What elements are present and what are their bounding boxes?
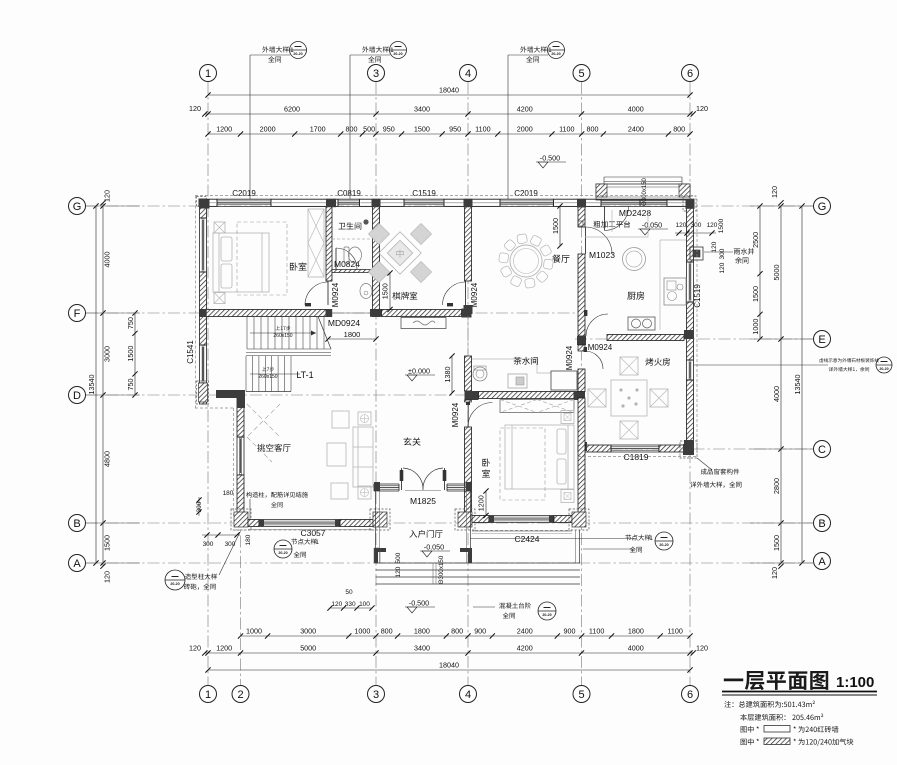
svg-text:C2424: C2424 — [514, 534, 539, 544]
svg-text:1000: 1000 — [751, 319, 760, 335]
top dimension total 18040 — [208, 94, 690, 96]
axis vertical line 2 — [240, 392, 242, 686]
axis bubble 1 top — [200, 65, 217, 82]
svg-text:180: 180 — [223, 490, 234, 497]
top dimension chain detailed — [208, 133, 690, 135]
callout concrete steps — [499, 603, 531, 609]
svg-text:120: 120 — [395, 566, 402, 577]
door-window MD2428 kitchen north — [601, 198, 640, 200]
svg-text:900: 900 — [564, 627, 576, 636]
wardrobe bedroom1 — [308, 209, 324, 277]
svg-text:1800: 1800 — [344, 330, 361, 339]
window C3057 — [259, 519, 340, 521]
svg-text:300: 300 — [691, 222, 702, 229]
wall axis4 mahjong east — [465, 206, 472, 281]
room label bedroom2 vertical — [482, 459, 490, 467]
axis horizontal line D — [86, 394, 585, 396]
wall living south axis B — [248, 520, 259, 527]
callout exterior wall detail 1 (mid) — [349, 55, 351, 199]
title first floor plan — [724, 671, 828, 690]
axis bubble B left — [69, 515, 86, 532]
svg-text:B: B — [73, 518, 80, 530]
svg-text:4: 4 — [465, 68, 471, 80]
wall left exterior along axis 1 — [200, 200, 207, 219]
svg-text:1: 1 — [649, 535, 653, 542]
callout shaped column left — [165, 570, 185, 590]
door M0924 tea to fire room — [578, 369, 585, 392]
svg-text:120: 120 — [770, 567, 779, 579]
wall entry north west segment — [374, 483, 399, 485]
wall entry north east segment — [447, 483, 472, 485]
stair arrow lower — [250, 373, 300, 375]
porch steps top — [604, 176, 682, 178]
svg-text:300: 300 — [196, 501, 203, 512]
svg-text:800: 800 — [587, 125, 599, 134]
opening MD0924 threshold — [332, 312, 370, 314]
column entry west — [374, 482, 380, 491]
svg-text:900: 900 — [474, 627, 486, 636]
wall living west axis2 — [237, 398, 244, 437]
tea room counter — [472, 359, 551, 373]
room label tea room — [514, 357, 538, 365]
corner pilaster B5 — [569, 509, 589, 530]
svg-text:18040: 18040 — [439, 661, 459, 670]
callout exterior wall detail 1 (right) — [507, 55, 509, 199]
floor drain — [363, 219, 368, 224]
svg-text:6200: 6200 — [284, 105, 300, 114]
svg-text:120: 120 — [707, 222, 718, 229]
svg-text:6: 6 — [687, 689, 693, 701]
nightstands bedroom1 — [214, 222, 225, 233]
svg-text:120: 120 — [711, 241, 718, 252]
column F4 — [462, 309, 472, 318]
svg-text:120: 120 — [103, 571, 112, 583]
right dimension total 13540 — [801, 206, 803, 563]
svg-text:3: 3 — [373, 68, 379, 80]
svg-text:M0924: M0924 — [565, 345, 574, 370]
window fire room east — [686, 360, 688, 380]
svg-text:120: 120 — [770, 186, 779, 198]
svg-text:20-20: 20-20 — [879, 367, 888, 371]
mahjong table — [379, 232, 421, 274]
axis horizontal line E — [575, 338, 813, 340]
leader lines to right node callout — [470, 538, 634, 540]
svg-text:1: 1 — [205, 68, 211, 80]
axis horizontal line B — [86, 522, 813, 524]
svg-text:1500: 1500 — [718, 218, 725, 233]
top dimension chain major — [208, 113, 690, 115]
door M0824 — [335, 248, 337, 269]
svg-text:750: 750 — [126, 317, 135, 329]
svg-text:M0824: M0824 — [334, 259, 360, 269]
window C2019 top-left — [217, 198, 271, 200]
svg-text:120: 120 — [696, 644, 708, 653]
bottom dimension chain major — [208, 652, 690, 654]
axis horizontal line G — [86, 205, 813, 207]
svg-text:1500: 1500 — [551, 218, 560, 234]
sofa set living room — [327, 411, 373, 499]
svg-text:C: C — [818, 444, 826, 456]
rain well — [690, 247, 703, 260]
dashed rect bedroom2 — [500, 428, 545, 500]
wall along axis F bedroom bottom — [200, 310, 327, 317]
axis vertical line 4 — [467, 82, 469, 686]
window C1819 — [611, 444, 659, 446]
dining round table — [510, 245, 542, 277]
callout node detail right — [625, 535, 650, 541]
svg-text:100: 100 — [359, 601, 370, 608]
axis vertical line 5 — [581, 82, 583, 686]
svg-text:1000: 1000 — [354, 627, 370, 636]
callout stone trim right — [694, 364, 828, 366]
svg-text:D: D — [73, 390, 81, 402]
svg-text:M0924: M0924 — [331, 282, 340, 307]
svg-text:120: 120 — [103, 190, 112, 202]
svg-text:2400: 2400 — [628, 125, 644, 134]
callout window surround right — [697, 458, 712, 470]
svg-text:4200: 4200 — [517, 644, 533, 653]
room label mahjong — [392, 292, 417, 300]
wall bedroom2 east axis5 — [578, 398, 585, 515]
svg-text:3000: 3000 — [103, 346, 112, 362]
svg-text:2: 2 — [237, 689, 243, 701]
axis bubble E right — [814, 331, 831, 348]
stair arrow upper — [250, 332, 316, 334]
wall axis3 bath east — [373, 206, 380, 309]
svg-text:13540: 13540 — [87, 375, 96, 395]
svg-text:2800: 2800 — [772, 478, 781, 494]
dim 1500 dining — [559, 206, 561, 246]
svg-text:1200: 1200 — [216, 125, 232, 134]
porch corner step brackets — [374, 548, 386, 563]
fire room stools — [620, 357, 638, 375]
wall along axis D tea room bottom — [465, 391, 479, 400]
svg-text:180: 180 — [245, 534, 252, 545]
tea water heater — [473, 367, 487, 381]
fire room table — [611, 380, 647, 416]
column D5 — [574, 391, 585, 400]
stair break line — [318, 317, 331, 350]
wall top exterior along axis G — [200, 199, 218, 206]
svg-text:A: A — [73, 558, 81, 570]
svg-text:20-20: 20-20 — [551, 52, 560, 56]
axis bubble B right — [814, 515, 831, 532]
svg-text:800: 800 — [381, 627, 393, 636]
svg-text:C0819: C0819 — [337, 189, 361, 198]
axis bubble G right — [814, 198, 831, 215]
notes — [724, 701, 815, 708]
room label bathroom — [338, 222, 361, 229]
bottom dimension chain detailed — [241, 635, 691, 637]
wall kitchen south axis E — [577, 336, 586, 345]
dashed ceiling rect bedroom1 — [237, 222, 287, 295]
corner pilaster C6 — [680, 441, 697, 458]
svg-text:1700: 1700 — [310, 125, 326, 134]
svg-text:Θ300x150: Θ300x150 — [438, 555, 445, 584]
door M0924 bedroom2 — [469, 402, 471, 427]
axis vertical line 3 — [375, 82, 377, 686]
svg-text:M0924: M0924 — [451, 402, 460, 427]
svg-text:1100: 1100 — [475, 125, 490, 134]
axis bubble 4 bottom — [460, 686, 477, 703]
axis bubble 5 top — [573, 65, 590, 82]
wall mahjong bottom along F — [382, 310, 462, 317]
svg-text:2000: 2000 — [517, 125, 533, 134]
kitchen stove — [628, 317, 655, 330]
svg-text:1: 1 — [205, 689, 211, 701]
svg-text:1500: 1500 — [772, 535, 781, 551]
double height dashed lines living — [247, 404, 280, 462]
stair lower flight treads — [246, 356, 291, 392]
axis bubble F left — [69, 305, 86, 322]
left dimension detail 750/1500/750 — [134, 313, 136, 395]
svg-text:18040: 18040 — [439, 86, 459, 95]
door M0924 bedroom1 — [328, 281, 330, 305]
svg-text:-0.050: -0.050 — [642, 221, 662, 230]
svg-text:1500: 1500 — [381, 283, 390, 299]
svg-text:M1023: M1023 — [589, 250, 615, 260]
svg-text:1380: 1380 — [443, 367, 452, 383]
svg-text:1:100: 1:100 — [836, 674, 874, 691]
svg-text:300: 300 — [225, 541, 236, 548]
corner pilaster B4 — [455, 509, 475, 530]
window bedroom west — [199, 218, 201, 272]
axis bubble 3 top — [368, 65, 385, 82]
svg-text:4000: 4000 — [628, 644, 644, 653]
stone trim dashed outline exterior — [195, 195, 694, 197]
svg-text:500: 500 — [395, 552, 402, 563]
tea cabinet — [551, 371, 577, 390]
svg-text:2500: 2500 — [751, 232, 760, 248]
svg-text:C2019: C2019 — [514, 189, 538, 198]
svg-text:750: 750 — [126, 378, 135, 390]
kitchen sink round — [623, 248, 646, 271]
corner pilaster G6 dashes — [683, 196, 696, 211]
svg-text:260x150: 260x150 — [273, 333, 292, 339]
wall bedroom1 east — [326, 206, 332, 281]
dim 1380 — [451, 356, 453, 393]
svg-text:20-20: 20-20 — [278, 551, 287, 555]
svg-text:LT-1: LT-1 — [296, 370, 313, 380]
wall tea room west — [465, 356, 472, 391]
bed bedroom2 — [505, 425, 574, 489]
svg-text:M1825: M1825 — [410, 496, 436, 506]
corner pilaster B3 porch — [370, 509, 390, 530]
svg-text:MD0924: MD0924 — [328, 318, 360, 328]
bathroom toilet — [344, 247, 362, 263]
svg-text:950: 950 — [383, 125, 395, 134]
svg-text:3: 3 — [373, 689, 379, 701]
room label dining — [552, 254, 569, 262]
svg-text:330: 330 — [345, 601, 356, 608]
platform L column bottom-left of entry — [374, 548, 380, 563]
svg-text:MD2428: MD2428 — [619, 208, 651, 218]
wall kitchen west axis5 — [578, 206, 585, 227]
nightstands bedroom2 — [561, 411, 574, 424]
svg-text:1500: 1500 — [414, 125, 430, 134]
svg-text:1100: 1100 — [667, 627, 682, 636]
window C1519 top — [404, 198, 444, 200]
window C0819 — [338, 198, 360, 200]
svg-text:5: 5 — [578, 689, 584, 701]
svg-text:C1541: C1541 — [186, 340, 195, 364]
svg-text:1100: 1100 — [589, 627, 604, 636]
callout exterior wall detail 1 (left) — [249, 55, 251, 199]
axis bubble 6 top — [682, 65, 699, 82]
svg-text:120: 120 — [189, 644, 201, 653]
svg-text:±0.000: ±0.000 — [408, 367, 430, 376]
svg-text:Θ300x150: Θ300x150 — [642, 178, 648, 206]
svg-text:C1819: C1819 — [623, 452, 648, 462]
stair landing — [246, 352, 331, 354]
svg-text:C1519: C1519 — [412, 189, 436, 198]
sill lines below C3057 — [248, 529, 372, 531]
room label entry hall — [409, 530, 442, 538]
wall step at D — [216, 390, 245, 398]
svg-text:3400: 3400 — [414, 644, 430, 653]
porch side edges — [375, 491, 377, 563]
rough-work platform outline — [596, 184, 690, 200]
svg-text:C1519: C1519 — [693, 284, 702, 308]
svg-text:3000: 3000 — [300, 627, 316, 636]
kitchen wash station — [664, 278, 686, 305]
svg-text:1800: 1800 — [414, 627, 430, 636]
svg-text:-0.500: -0.500 — [540, 154, 560, 163]
svg-text:20-20: 20-20 — [293, 52, 302, 56]
right dimension chain detail 2500/1500/1000 — [759, 206, 761, 339]
svg-text:C2019: C2019 — [232, 189, 256, 198]
axis horizontal line A — [86, 562, 813, 564]
bottom dimension total 18040 — [208, 669, 690, 671]
dim 1800 MD0924 — [328, 338, 376, 340]
svg-text:120: 120 — [331, 601, 342, 608]
corner pilaster D1 — [197, 381, 209, 404]
axis horizontal line C — [590, 448, 813, 450]
svg-text:A: A — [818, 556, 826, 568]
svg-text:120: 120 — [189, 104, 201, 113]
svg-text:4000: 4000 — [103, 252, 112, 268]
svg-text:5000: 5000 — [300, 644, 316, 653]
svg-text:1: 1 — [315, 539, 319, 546]
axis bubble 1 bottom — [200, 686, 217, 703]
entry steps — [376, 562, 581, 564]
svg-text:800: 800 — [673, 125, 685, 134]
svg-text:800: 800 — [346, 125, 358, 134]
axis bubble G left — [69, 198, 86, 215]
svg-text:300: 300 — [203, 541, 214, 548]
bath partition dashed — [332, 238, 371, 240]
svg-text:1500: 1500 — [126, 346, 135, 362]
left dimension total 13540 — [95, 206, 97, 563]
svg-text:5000: 5000 — [772, 265, 781, 281]
column at MD0924 — [370, 309, 382, 317]
svg-text:-0.050: -0.050 — [424, 543, 444, 552]
corner pilaster G1 — [197, 197, 207, 207]
bed bedroom1 — [213, 233, 269, 292]
svg-text:M0924: M0924 — [588, 343, 613, 352]
solid junction columns on walls — [200, 200, 210, 209]
wall bedroom2 west — [465, 400, 472, 402]
svg-text:F: F — [74, 308, 81, 320]
dim 1200 bedroom2 — [485, 491, 487, 516]
svg-text:800: 800 — [451, 627, 463, 636]
room label bedroom1 — [290, 262, 307, 270]
axis bubble A left — [69, 555, 86, 572]
window C1541 — [199, 345, 201, 383]
note structural column living — [246, 492, 308, 498]
right dimension chain major — [780, 206, 782, 563]
svg-text:4: 4 — [465, 689, 471, 701]
svg-text:260x150: 260x150 — [258, 374, 277, 380]
svg-text:500: 500 — [363, 125, 375, 134]
axis bubble 6 bottom — [682, 686, 699, 703]
axis bubble 5 bottom — [573, 686, 590, 703]
vent below mahjong wall — [401, 318, 446, 329]
svg-text:20-20: 20-20 — [170, 582, 179, 586]
window C2019 top dining — [500, 198, 554, 200]
svg-text:1200: 1200 — [216, 644, 232, 653]
stair LT-1 upper flight treads — [247, 317, 324, 350]
svg-text:5: 5 — [578, 68, 584, 80]
svg-text:4000: 4000 — [628, 105, 644, 114]
room label fire room — [646, 358, 670, 366]
sill lines below C2424 — [472, 530, 572, 532]
door M1825 double — [401, 468, 403, 490]
kitchen counter — [585, 210, 686, 330]
bathroom sink — [360, 284, 372, 299]
svg-text:-0.500: -0.500 — [409, 599, 429, 608]
room label living — [257, 444, 290, 452]
left dimension chain major — [102, 206, 104, 563]
svg-text:20-20: 20-20 — [659, 543, 668, 547]
room label kitchen — [627, 291, 644, 299]
svg-text:1800: 1800 — [628, 627, 644, 636]
svg-text:1000: 1000 — [246, 627, 262, 636]
door M1023 — [583, 227, 585, 254]
axis bubble A right — [814, 553, 831, 570]
closet bedroom2 — [500, 400, 574, 413]
window C1519 east — [686, 262, 688, 302]
axis horizontal line F — [86, 312, 585, 314]
svg-text:4200: 4200 — [517, 105, 533, 114]
corner pilaster B2 — [231, 509, 251, 530]
svg-text:1200: 1200 — [477, 495, 486, 511]
tea appliance — [508, 374, 527, 388]
svg-text:120: 120 — [719, 262, 726, 273]
svg-text:E: E — [818, 334, 825, 346]
svg-text:2000: 2000 — [260, 125, 276, 134]
svg-text:120: 120 — [696, 104, 708, 113]
svg-text:G: G — [73, 201, 82, 213]
svg-text:3400: 3400 — [414, 105, 430, 114]
axis bubble C right — [814, 441, 831, 458]
room label foyer — [404, 437, 421, 445]
svg-text:1100: 1100 — [559, 125, 574, 134]
door M0924 mahjong — [465, 281, 467, 305]
svg-text:1500: 1500 — [103, 535, 112, 551]
axis vertical line 6 — [689, 82, 691, 686]
svg-text:B: B — [818, 518, 825, 530]
svg-text:4000: 4000 — [772, 386, 781, 402]
svg-text:1500: 1500 — [751, 286, 760, 302]
axis bubble 4 top — [460, 65, 477, 82]
door M0924 kitchen — [585, 336, 607, 338]
svg-text:50: 50 — [345, 589, 353, 596]
svg-text:6: 6 — [687, 68, 693, 80]
svg-text:G: G — [818, 201, 827, 213]
svg-text:120: 120 — [676, 222, 687, 229]
column F4b — [464, 305, 473, 314]
